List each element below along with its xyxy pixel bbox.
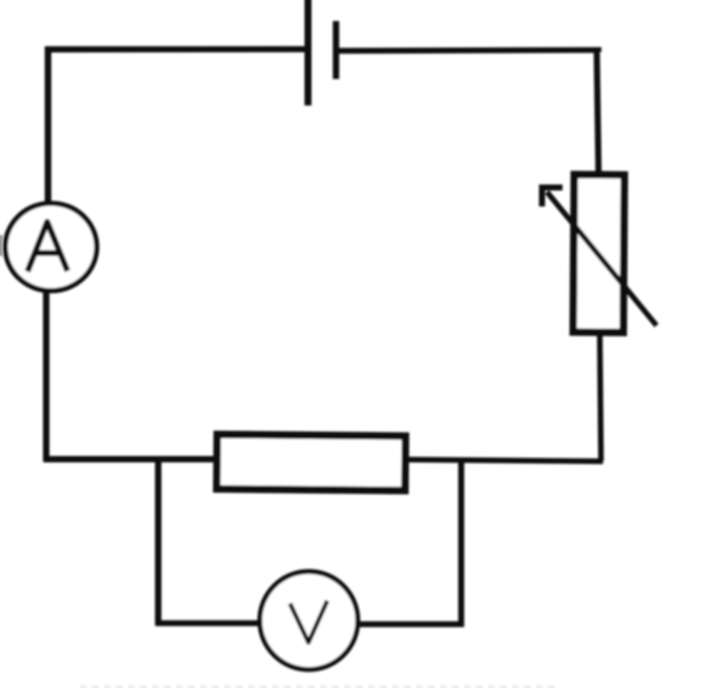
resistor R1 — [217, 434, 406, 490]
wire voltmeter branch right vertical — [458, 458, 464, 627]
variable resistor R2 body — [573, 175, 624, 333]
left edge scan smudge — [0, 235, 3, 256]
wire right vertical lower — [600, 336, 601, 461]
wire left vertical lower — [43, 291, 49, 461]
wire top-right horizontal — [339, 50, 599, 52]
bottom edge scan noise — [80, 686, 560, 688]
ammeter A1 circle — [5, 203, 96, 290]
battery B1 short plate — [333, 21, 339, 79]
wire bottom-left horizontal — [44, 456, 219, 462]
wire voltmeter branch left vertical — [155, 457, 161, 625]
wire top-left horizontal — [45, 46, 306, 52]
wire voltmeter branch bottom-left horizontal — [156, 620, 261, 626]
ammeter A1 letter A — [28, 222, 68, 272]
voltmeter V1 letter V — [290, 601, 327, 643]
wire left vertical upper — [45, 47, 52, 204]
battery B1 long plate — [305, 0, 312, 106]
variable resistor R2 arrowhead — [542, 188, 563, 207]
voltmeter V1 circle — [260, 572, 358, 670]
wire right vertical upper — [597, 48, 599, 172]
wire bottom-right horizontal — [406, 460, 603, 462]
variable resistor R2 arrow shaft — [547, 192, 657, 326]
wire voltmeter branch bottom-right horizontal — [359, 621, 464, 627]
